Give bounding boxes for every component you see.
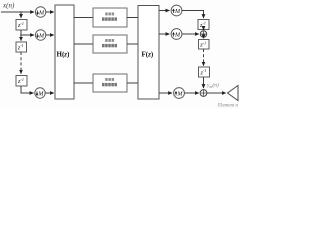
svg-text:M: M xyxy=(38,11,45,17)
wire node 2 to downsampler D2 xyxy=(21,34,34,36)
wire Z4 down to adder A1 xyxy=(203,29,205,31)
input label x(n) xyxy=(2,1,15,9)
output label y(n) xyxy=(206,82,219,90)
downsampler D3 xyxy=(35,88,45,98)
adder A2 xyxy=(200,90,207,97)
wire U1 to delay Z4 xyxy=(182,11,204,19)
svg-text:Element n: Element n xyxy=(218,103,238,108)
upsampler U2 xyxy=(171,29,182,40)
wire branch down to delay Z1 xyxy=(20,12,22,18)
svg-text:H(z): H(z) xyxy=(57,50,71,58)
wire Z3 to downsampler D3 xyxy=(21,86,33,93)
analysis filter H(z) xyxy=(55,5,74,99)
node branch 1 xyxy=(20,11,22,13)
wire P2 to F(z) xyxy=(127,43,138,45)
delay Z5 xyxy=(199,40,210,50)
delay Z1 xyxy=(16,20,27,31)
delay Z2 xyxy=(16,42,27,52)
svg-text:F(z): F(z) xyxy=(142,50,154,58)
svg-text:M: M xyxy=(37,92,44,98)
svg-text:ym(n): ym(n) xyxy=(206,82,219,90)
wire D1 to H(z) xyxy=(46,11,54,13)
subband processor P3 xyxy=(93,74,127,92)
node branch 2 xyxy=(20,34,22,36)
svg-text:M: M xyxy=(177,92,184,98)
wire A1 down to delay Z5 xyxy=(203,37,205,38)
wire P3 to F(z) xyxy=(127,82,138,84)
wire U3 to adder A2 xyxy=(185,92,199,94)
svg-text:M: M xyxy=(174,9,181,15)
upsampler U3 xyxy=(174,88,185,99)
svg-text:M: M xyxy=(174,33,181,39)
wire input to downsampler D1 xyxy=(1,11,34,13)
subband processor P2 xyxy=(93,35,127,53)
wire F(z) to upsampler U1 xyxy=(159,10,169,12)
wire node 2 down to delay Z2 xyxy=(20,35,22,41)
adder A1 xyxy=(200,31,206,37)
upsampler U1 xyxy=(171,5,182,16)
wire Z6 down to adder A2 xyxy=(203,77,205,88)
downsampler D2 xyxy=(35,30,45,40)
wire dashed Z5 down to delay Z6 xyxy=(203,49,205,66)
downsampler D1 xyxy=(35,7,45,17)
caption Element n xyxy=(218,103,238,108)
delay Z6 xyxy=(199,67,210,77)
subband processor P1 xyxy=(93,8,127,27)
wire H(z) to subband P2 xyxy=(74,43,93,45)
delay Z4 xyxy=(198,20,209,30)
synthesis filter F(z) xyxy=(138,6,159,100)
wire H(z) to subband P1 xyxy=(74,17,93,19)
wire D2 to H(z) xyxy=(46,34,54,36)
wire U2 to adder A1 xyxy=(182,33,199,35)
wire F(z) to upsampler U3 xyxy=(159,92,172,94)
wire A2 to speaker xyxy=(207,92,226,94)
wire D3 to H(z) xyxy=(45,92,53,94)
wire F(z) to upsampler U2 xyxy=(159,33,169,35)
svg-text:x(n): x(n) xyxy=(2,1,15,9)
wire P1 to F(z) xyxy=(127,17,138,19)
delay Z3 xyxy=(16,76,27,87)
wire H(z) to subband P3 xyxy=(74,82,93,84)
speaker xyxy=(228,86,239,101)
svg-text:M: M xyxy=(38,34,45,40)
wire Z1 down to node 2 xyxy=(20,30,22,35)
wire dashed Z2 down to delay Z3 xyxy=(20,52,22,74)
